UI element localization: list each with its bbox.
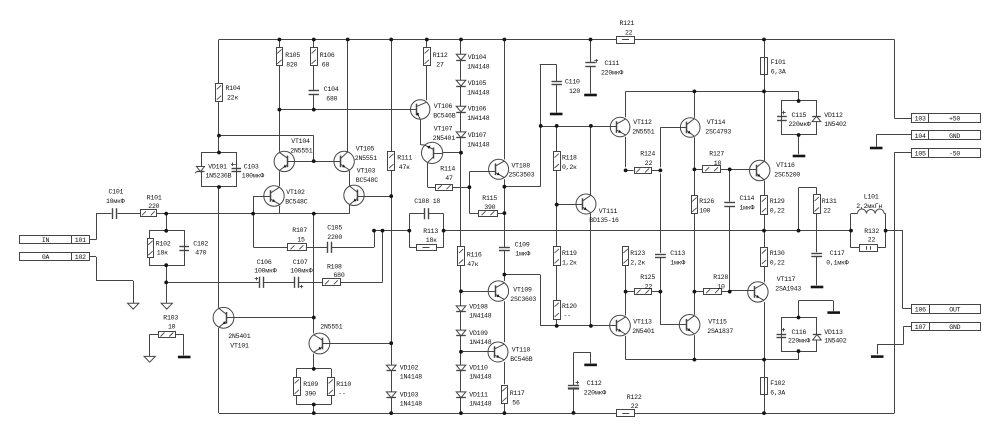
- svg-text:47к: 47к: [399, 164, 410, 171]
- svg-text:6,3A: 6,3A: [770, 390, 785, 397]
- svg-text:F101: F101: [771, 59, 786, 66]
- svg-text:10: 10: [717, 283, 725, 290]
- svg-text:680: 680: [334, 272, 345, 279]
- svg-text:107: 107: [915, 324, 926, 331]
- svg-text:C111: C111: [605, 60, 620, 67]
- svg-text:R118: R118: [562, 155, 577, 162]
- svg-text:C105: C105: [327, 225, 342, 232]
- svg-text:-50: -50: [949, 151, 960, 158]
- svg-text:1N5236B: 1N5236B: [206, 173, 232, 180]
- svg-text:2N5551: 2N5551: [320, 324, 342, 331]
- svg-text:470: 470: [195, 250, 206, 257]
- svg-text:101: 101: [75, 237, 86, 244]
- svg-text:C109: C109: [515, 242, 530, 249]
- svg-text:2SA1943: 2SA1943: [775, 286, 801, 293]
- svg-text:1N5402: 1N5402: [824, 338, 846, 345]
- svg-text:VD105: VD105: [468, 80, 487, 87]
- svg-text:220мкФ: 220мкФ: [584, 390, 606, 397]
- svg-text:2N5551: 2N5551: [632, 129, 654, 136]
- svg-text:1,2к: 1,2к: [562, 260, 577, 267]
- svg-text:47: 47: [445, 175, 453, 182]
- svg-text:C115: C115: [792, 112, 807, 119]
- svg-text:1мкФ: 1мкФ: [740, 205, 755, 212]
- svg-text:VT107: VT107: [434, 126, 453, 133]
- svg-text:VD111: VD111: [469, 392, 488, 399]
- svg-text:--: --: [338, 390, 345, 397]
- svg-text:1N4148: 1N4148: [400, 401, 422, 408]
- svg-text:1N4148: 1N4148: [469, 313, 491, 320]
- svg-text:220: 220: [148, 203, 159, 210]
- svg-text:1N4148: 1N4148: [469, 374, 491, 381]
- svg-text:0,2к: 0,2к: [562, 164, 577, 171]
- svg-text:R104: R104: [226, 85, 241, 92]
- svg-text:--: --: [564, 313, 571, 320]
- svg-text:22: 22: [645, 283, 653, 290]
- svg-text:R129: R129: [770, 198, 785, 205]
- svg-text:105: 105: [915, 151, 926, 158]
- svg-text:680: 680: [326, 96, 337, 103]
- svg-text:VT106: VT106: [434, 103, 453, 110]
- svg-text:C112: C112: [587, 380, 602, 387]
- svg-text:VD107: VD107: [468, 132, 487, 139]
- svg-text:R109: R109: [303, 381, 318, 388]
- svg-text:VT108: VT108: [512, 162, 531, 169]
- svg-text:BC546B: BC546B: [510, 356, 532, 363]
- svg-text:R123: R123: [630, 250, 645, 257]
- svg-text:VT109: VT109: [513, 287, 532, 294]
- svg-text:100: 100: [699, 208, 710, 215]
- svg-text:18к: 18к: [426, 237, 437, 244]
- svg-text:R131: R131: [822, 198, 837, 205]
- svg-text:1N5402: 1N5402: [824, 121, 846, 128]
- svg-text:1N4148: 1N4148: [469, 401, 491, 408]
- svg-text:R124: R124: [640, 151, 655, 158]
- svg-text:2,2к: 2,2к: [630, 260, 645, 267]
- svg-text:1N4148: 1N4148: [400, 374, 422, 381]
- svg-text:220мкФ: 220мкФ: [601, 70, 623, 77]
- svg-text:15: 15: [297, 237, 305, 244]
- svg-text:+50: +50: [949, 116, 960, 123]
- svg-text:100мкФ: 100мкФ: [290, 267, 312, 274]
- svg-text:2N5401: 2N5401: [632, 328, 654, 335]
- svg-text:VT113: VT113: [633, 319, 652, 326]
- svg-text:VT116: VT116: [776, 162, 795, 169]
- svg-text:2SC4793: 2SC4793: [705, 129, 731, 136]
- svg-text:22: 22: [631, 403, 639, 410]
- svg-text:R103: R103: [163, 315, 178, 322]
- svg-text:0,1мкФ: 0,1мкФ: [826, 260, 848, 267]
- svg-text:R130: R130: [770, 250, 785, 257]
- svg-text:VD101: VD101: [208, 164, 227, 171]
- svg-text:R125: R125: [640, 274, 655, 281]
- svg-text:C103: C103: [244, 164, 259, 171]
- svg-text:0,22: 0,22: [770, 208, 785, 215]
- svg-text:VD106: VD106: [468, 106, 487, 113]
- svg-text:220мкФ: 220мкФ: [789, 121, 811, 128]
- svg-text:C102: C102: [193, 241, 208, 248]
- svg-text:18к: 18к: [157, 250, 168, 257]
- svg-text:1N4148: 1N4148: [467, 115, 489, 122]
- svg-text:102: 102: [75, 254, 86, 261]
- svg-text:VT112: VT112: [633, 119, 652, 126]
- svg-text:VD112: VD112: [824, 112, 843, 119]
- svg-text:2N5401: 2N5401: [433, 135, 455, 142]
- svg-text:100мкФ: 100мкФ: [254, 267, 276, 274]
- svg-text:BC548C: BC548C: [356, 177, 378, 184]
- svg-text:C104: C104: [324, 86, 339, 93]
- svg-text:R115: R115: [482, 195, 497, 202]
- svg-text:10: 10: [168, 324, 176, 331]
- svg-text:GND: GND: [949, 324, 960, 331]
- svg-text:BC546B: BC546B: [433, 113, 455, 120]
- svg-text:R113: R113: [423, 228, 438, 235]
- svg-text:R111: R111: [397, 155, 412, 162]
- svg-text:68: 68: [322, 62, 330, 69]
- svg-text:100мкФ: 100мкФ: [242, 173, 264, 180]
- svg-text:IN: IN: [42, 237, 50, 244]
- svg-text:R110: R110: [336, 381, 351, 388]
- svg-text:R128: R128: [713, 274, 728, 281]
- svg-text:R126: R126: [699, 198, 714, 205]
- svg-text:R127: R127: [709, 151, 724, 158]
- svg-text:VD109: VD109: [469, 330, 488, 337]
- svg-text:820: 820: [286, 62, 297, 69]
- svg-text:R114: R114: [440, 166, 455, 173]
- svg-text:1N4148: 1N4148: [467, 64, 489, 71]
- svg-text:R112: R112: [433, 52, 448, 59]
- svg-text:22к: 22к: [227, 95, 238, 102]
- svg-text:220мкФ: 220мкФ: [788, 338, 810, 345]
- svg-text:VT114: VT114: [707, 119, 726, 126]
- svg-text:120: 120: [569, 88, 580, 95]
- svg-text:0,22: 0,22: [770, 260, 785, 267]
- svg-text:2N5551: 2N5551: [355, 155, 377, 162]
- svg-text:2SC5200: 2SC5200: [774, 172, 800, 179]
- svg-text:104: 104: [915, 133, 926, 140]
- svg-text:VT101: VT101: [230, 342, 249, 349]
- svg-text:VD110: VD110: [469, 365, 488, 372]
- svg-text:C107: C107: [293, 259, 308, 266]
- svg-text:VT104: VT104: [291, 138, 310, 145]
- svg-text:22: 22: [868, 237, 876, 244]
- svg-text:R120: R120: [562, 303, 577, 310]
- svg-text:27: 27: [436, 62, 444, 69]
- svg-text:22: 22: [823, 208, 831, 215]
- svg-text:22: 22: [625, 30, 633, 37]
- svg-text:R117: R117: [510, 390, 525, 397]
- svg-text:R132: R132: [864, 228, 879, 235]
- svg-text:1мкФ: 1мкФ: [515, 251, 530, 258]
- svg-text:22: 22: [645, 160, 653, 167]
- svg-text:2,2мкГн: 2,2мкГн: [856, 203, 882, 210]
- svg-text:OUT: OUT: [949, 307, 960, 314]
- svg-text:10: 10: [714, 160, 722, 167]
- svg-text:VD113: VD113: [824, 329, 843, 336]
- svg-text:GND: GND: [949, 133, 960, 140]
- svg-text:F102: F102: [770, 380, 785, 387]
- svg-text:103: 103: [915, 116, 926, 123]
- svg-text:VD103: VD103: [400, 392, 419, 399]
- svg-text:C101: C101: [109, 189, 124, 196]
- svg-text:R121: R121: [620, 20, 635, 27]
- svg-text:2SC3603: 2SC3603: [510, 296, 536, 303]
- svg-text:2N5551: 2N5551: [290, 147, 312, 154]
- svg-text:R119: R119: [562, 250, 577, 257]
- svg-text:R101: R101: [147, 195, 162, 202]
- svg-text:VT102: VT102: [286, 189, 305, 196]
- svg-text:C116: C116: [792, 329, 807, 336]
- svg-text:VT115: VT115: [708, 319, 727, 326]
- svg-text:C106: C106: [257, 259, 272, 266]
- svg-text:2SA1837: 2SA1837: [707, 328, 733, 335]
- svg-text:L101: L101: [864, 194, 879, 201]
- svg-text:2SC3503: 2SC3503: [509, 172, 535, 179]
- svg-text:R106: R106: [320, 52, 335, 59]
- svg-text:R102: R102: [156, 241, 171, 248]
- svg-text:10мкФ: 10мкФ: [106, 198, 125, 205]
- svg-text:0A: 0A: [42, 254, 50, 261]
- svg-text:1N4148: 1N4148: [467, 142, 489, 149]
- svg-text:106: 106: [915, 307, 926, 314]
- svg-text:VD104: VD104: [468, 54, 487, 61]
- svg-text:VT103: VT103: [357, 168, 376, 175]
- svg-text:2N5401: 2N5401: [228, 333, 250, 340]
- svg-text:C113: C113: [670, 250, 685, 257]
- svg-text:390: 390: [305, 390, 316, 397]
- svg-text:C110: C110: [565, 79, 580, 86]
- svg-text:47к: 47к: [467, 261, 478, 268]
- svg-text:R122: R122: [627, 394, 642, 401]
- svg-text:VT105: VT105: [356, 146, 375, 153]
- svg-text:VD108: VD108: [469, 304, 488, 311]
- svg-text:BD135-16: BD135-16: [589, 217, 619, 224]
- svg-text:VD102: VD102: [400, 365, 419, 372]
- svg-text:1мкФ: 1мкФ: [670, 260, 685, 267]
- svg-text:2200: 2200: [327, 234, 342, 241]
- svg-text:56: 56: [512, 400, 520, 407]
- svg-text:C108 18: C108 18: [414, 198, 440, 205]
- svg-text:R116: R116: [467, 252, 482, 259]
- svg-text:BC548C: BC548C: [285, 198, 307, 205]
- svg-text:C114: C114: [740, 195, 755, 202]
- svg-text:R105: R105: [285, 52, 300, 59]
- svg-text:1N4148: 1N4148: [467, 90, 489, 97]
- svg-text:VT111: VT111: [599, 208, 618, 215]
- svg-text:R108: R108: [327, 263, 342, 270]
- svg-text:R107: R107: [292, 227, 307, 234]
- svg-text:390: 390: [484, 204, 495, 211]
- svg-text:VT117: VT117: [777, 276, 796, 283]
- svg-text:6,3A: 6,3A: [771, 69, 786, 76]
- svg-text:1N4148: 1N4148: [469, 339, 491, 346]
- svg-text:C117: C117: [830, 250, 845, 257]
- svg-text:VT110: VT110: [512, 347, 531, 354]
